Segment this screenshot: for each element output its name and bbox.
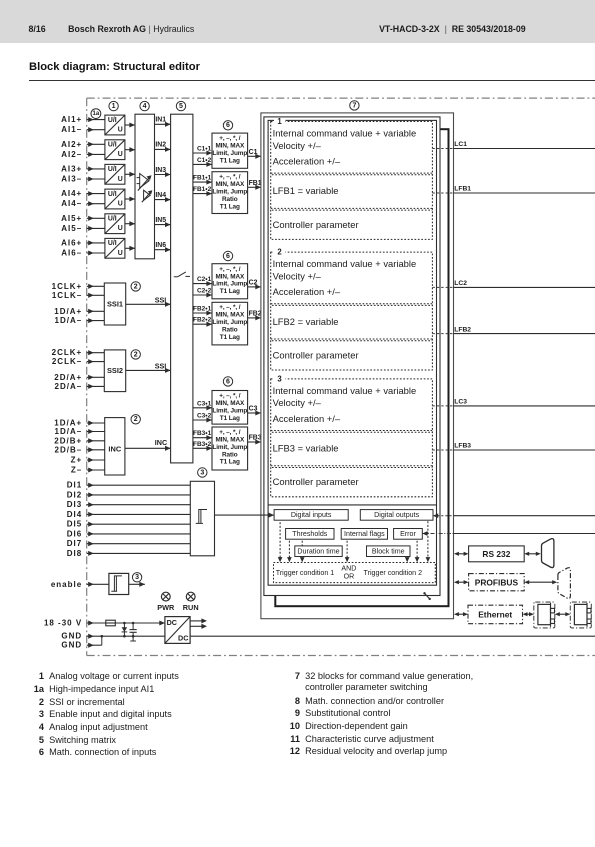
svg-text:+, –, *, /: +, –, *, /: [219, 304, 241, 311]
divider line above digital section: [268, 504, 436, 506]
serial D-sub connector: [542, 539, 554, 568]
svg-text:U/I: U/I: [108, 191, 117, 198]
frame dash-dot bottom border: [87, 655, 595, 657]
frame dash-dot left border: [86, 98, 88, 655]
INC incremental interface block: [105, 418, 125, 475]
svg-text:OR: OR: [344, 573, 355, 581]
wire IN1 matrix to block 5: [155, 117, 171, 127]
block 1 section divider 2 (dotted): [271, 208, 433, 210]
svg-text:MIN, MAX: MIN, MAX: [215, 143, 245, 150]
circled number 4: [140, 101, 149, 110]
block 1 text lines: [273, 127, 417, 229]
SSI2 interface block: [104, 350, 125, 392]
svg-text:C1•2: C1•2: [197, 157, 212, 164]
svg-text:LC3: LC3: [454, 399, 467, 406]
SSI1 interface block: [104, 283, 125, 325]
svg-text:6: 6: [226, 253, 230, 260]
block 2 section divider 2 (dotted): [271, 339, 433, 341]
wire U/I block 1 to switching matrix: [125, 122, 135, 127]
svg-text:U/I: U/I: [108, 240, 117, 247]
Ethernet RJ45 connector 1: [534, 602, 555, 628]
svg-text:C2•1: C2•1: [197, 276, 212, 283]
svg-text:LFB1: LFB1: [454, 186, 471, 193]
double arrow block7 to Ethernet: [454, 612, 468, 616]
svg-text:U: U: [118, 151, 123, 158]
svg-text:6: 6: [226, 378, 230, 385]
double arrow RJ45 1 to RJ45 2: [555, 612, 571, 616]
circled number 1: [109, 101, 118, 110]
svg-text:DI3: DI3: [67, 500, 82, 509]
page title: [29, 61, 200, 73]
block 7 front page rectangle: [264, 117, 440, 596]
svg-text:+, –, *, /: +, –, *, /: [219, 393, 241, 400]
svg-text:INC: INC: [108, 444, 121, 453]
svg-text:3: 3: [135, 574, 139, 581]
circled number 3 (enable): [132, 573, 141, 582]
U/I converter block 1 (analog input 1): [105, 115, 125, 135]
svg-text:Velocity +/–: Velocity +/–: [273, 140, 322, 151]
U/I converter block 4 (analog input 4): [105, 189, 125, 209]
wire U/I block 6 to switching matrix: [125, 246, 135, 251]
svg-text:LC2: LC2: [454, 280, 467, 287]
input line DI7: [67, 539, 191, 548]
svg-text:C2•2: C2•2: [197, 288, 212, 295]
block 7 back page rectangle: [261, 113, 454, 619]
input line 2D/B– (INC): [55, 445, 105, 454]
math box FB3 (with Ratio): [212, 427, 248, 470]
svg-text:AI2+: AI2+: [61, 140, 82, 149]
svg-text:DI4: DI4: [67, 510, 82, 519]
dashed connector Error to trigger: [415, 541, 420, 563]
svg-text:IN2: IN2: [155, 142, 166, 149]
math box C3 (MIN MAX Limit Jump T1 Lag): [212, 391, 248, 425]
svg-text:Velocity +/–: Velocity +/–: [273, 270, 322, 281]
block 3 section divider (dotted): [271, 431, 433, 433]
input line 2CLK– (SSI2): [52, 357, 104, 366]
svg-text:1: 1: [112, 103, 116, 110]
svg-text:FB3•1: FB3•1: [193, 430, 212, 437]
input line DI5: [67, 520, 191, 529]
svg-text:T1 Lag: T1 Lag: [220, 334, 240, 341]
math box C2 (MIN MAX Limit Jump T1 Lag): [212, 264, 248, 299]
wire IN5 matrix to block 5: [155, 217, 171, 227]
wire FB2 math box to block 7: [248, 310, 262, 320]
svg-text:Ratio: Ratio: [222, 196, 238, 203]
svg-text:1a: 1a: [93, 111, 100, 117]
input lines AI1+ / AI1- with labels: [61, 115, 105, 134]
switching matrix block (4): [135, 114, 155, 259]
svg-text:2D/B–: 2D/B–: [55, 445, 83, 454]
block 2 section divider (dotted): [271, 304, 433, 306]
U/I converter block 3 (analog input 3): [105, 164, 125, 184]
input line DI2: [67, 490, 191, 499]
svg-text:FB1: FB1: [249, 180, 262, 187]
input lines AI6+ / AI6- with labels: [61, 238, 105, 257]
svg-text:MIN, MAX: MIN, MAX: [215, 400, 245, 407]
ground line GND: [61, 632, 595, 641]
svg-text:DC: DC: [178, 633, 188, 642]
dashed stub and output line LFB2: [432, 326, 595, 333]
circled number 1a: [91, 109, 101, 119]
svg-text:DI8: DI8: [67, 549, 82, 558]
svg-text:SSI2: SSI2: [107, 366, 123, 375]
svg-text:+, –, *, /: +, –, *, /: [219, 174, 241, 181]
svg-text:C3•1: C3•1: [197, 400, 212, 407]
suppressor diode V1: [122, 622, 128, 638]
Trigger condition dotted box: [274, 563, 436, 583]
input line DI6: [67, 529, 191, 538]
page header bar: [0, 0, 595, 43]
block 7 thick middle page rectangle: [275, 129, 448, 606]
svg-text:LC1: LC1: [454, 141, 467, 148]
input line Z+ (INC): [71, 456, 105, 465]
double arrow block7 to PROFIBUS: [454, 580, 469, 584]
svg-text:IN6: IN6: [155, 242, 166, 249]
wire U/I block 3 to switching matrix: [125, 172, 135, 177]
svg-text:Limit, Jump: Limit, Jump: [212, 408, 247, 415]
input lines AI3+ / AI3- with labels: [61, 164, 105, 183]
Block time box: [367, 546, 411, 557]
svg-text:2D/A+: 2D/A+: [54, 373, 82, 382]
wires FB2•1 and FB2•2 block5 to math box FB2: [193, 306, 212, 327]
input line 1CLK+ (SSI1): [52, 282, 105, 291]
svg-text:LFB2: LFB2: [454, 326, 471, 333]
input line 1D/A– (INC): [55, 427, 105, 436]
DC/DC converter: [165, 617, 190, 644]
wire U/I block 4 to switching matrix: [125, 196, 135, 201]
U/I converter block 5 (analog input 5): [105, 214, 125, 234]
svg-text:U: U: [118, 250, 123, 257]
svg-text:2: 2: [134, 351, 138, 358]
svg-text:Error: Error: [400, 530, 416, 538]
input selector block (5): [171, 114, 193, 463]
svg-text:2D/B+: 2D/B+: [54, 436, 82, 445]
svg-text:PROFIBUS: PROFIBUS: [475, 578, 519, 588]
double arrow block7 to RS232: [454, 552, 469, 556]
circled number 2 (INC): [131, 415, 140, 424]
svg-text:MIN, MAX: MIN, MAX: [215, 181, 245, 188]
svg-text:AI6+: AI6+: [61, 238, 82, 247]
Thresholds box: [286, 529, 334, 540]
input line 2D/B+ (INC): [54, 436, 104, 445]
wires C3•1 and C3•2 block5 to math box C3: [193, 400, 212, 422]
svg-text:LFB3: LFB3: [454, 443, 471, 450]
svg-text:Limit, Jump: Limit, Jump: [212, 281, 247, 288]
svg-text:IN5: IN5: [155, 217, 166, 224]
svg-text:Block time: Block time: [372, 548, 405, 556]
svg-text:U/I: U/I: [108, 117, 117, 124]
dashed stub and output line LFB3: [432, 443, 595, 450]
svg-text:Ratio: Ratio: [222, 451, 238, 458]
svg-text:2: 2: [134, 416, 138, 423]
svg-text:AI1–: AI1–: [61, 125, 82, 134]
svg-text:Acceleration +/–: Acceleration +/–: [273, 413, 341, 424]
svg-text:FB2•2: FB2•2: [193, 317, 212, 324]
dashed connector Thresholds to Duration time: [301, 541, 303, 546]
svg-text:SSI1: SSI1: [107, 300, 123, 309]
svg-text:Limit, Jump: Limit, Jump: [212, 319, 247, 326]
Ethernet interface box (dash-dot): [468, 605, 523, 624]
double arrow Ethernet to RJ45 1: [523, 612, 535, 616]
block 3 section divider 2 (dotted): [271, 466, 433, 468]
svg-text:Ratio: Ratio: [222, 327, 238, 334]
svg-text:AI5+: AI5+: [61, 214, 82, 223]
svg-text:4: 4: [143, 103, 147, 110]
wire C3 math box to block 7: [248, 406, 261, 416]
wire FB1 math box to block 7: [248, 180, 262, 190]
input line 2CLK+ (SSI2): [52, 348, 105, 357]
dashed stub and output line LFB1: [432, 186, 595, 193]
svg-text:DI1: DI1: [67, 481, 82, 490]
svg-text:Digital inputs: Digital inputs: [291, 511, 332, 519]
svg-text:LFB3 = variable: LFB3 = variable: [273, 443, 339, 454]
circled number 6 (math connection group 1): [223, 121, 232, 130]
circled number 2 (SSI1): [131, 282, 140, 291]
svg-text:Limit, Jump: Limit, Jump: [212, 150, 247, 157]
svg-text:U: U: [118, 176, 123, 183]
svg-text:enable: enable: [51, 580, 82, 589]
Error box: [394, 529, 423, 540]
supply input 18-30V line: [44, 619, 165, 628]
svg-text:DI5: DI5: [67, 520, 82, 529]
wires C2•1 and C2•2 block5 to math box C2: [193, 276, 212, 297]
Ethernet RJ45 connector 2: [570, 602, 591, 628]
svg-text:AI4–: AI4–: [61, 199, 82, 208]
block 2 text lines: [273, 258, 417, 360]
svg-text:U: U: [118, 201, 123, 208]
svg-text:AI6–: AI6–: [61, 249, 82, 258]
svg-text:MIN, MAX: MIN, MAX: [215, 273, 245, 280]
wires C1•1 and C1•2 block5 to math box C1: [193, 146, 212, 167]
svg-text:18 -30 V: 18 -30 V: [44, 619, 82, 628]
svg-text:IN1: IN1: [155, 117, 166, 124]
enable output arrow: [129, 582, 145, 587]
svg-text:T1 Lag: T1 Lag: [220, 203, 240, 210]
page-stack continuation slash mark: [423, 592, 431, 600]
input lines AI5+ / AI5- with labels: [61, 214, 105, 233]
svg-text:PWR: PWR: [157, 603, 175, 612]
svg-text:FB2: FB2: [249, 310, 262, 317]
wire IN2 matrix to block 5: [155, 142, 171, 152]
svg-text:Controller parameter: Controller parameter: [273, 349, 359, 360]
svg-text:AI5–: AI5–: [61, 224, 82, 233]
circled number 6 (math connection group 2): [223, 251, 232, 260]
svg-text:1D/A–: 1D/A–: [55, 316, 83, 325]
title rule: [29, 80, 595, 81]
svg-text:T1 Lag: T1 Lag: [220, 288, 240, 295]
dashed stub and output line LC1: [432, 141, 595, 148]
svg-text:LFB2 = variable: LFB2 = variable: [273, 316, 339, 327]
input line DI4: [67, 510, 191, 519]
svg-text:U: U: [118, 127, 123, 134]
svg-text:U/I: U/I: [108, 166, 117, 173]
svg-text:Controller parameter: Controller parameter: [273, 476, 359, 487]
svg-text:MIN, MAX: MIN, MAX: [215, 312, 245, 319]
svg-text:5: 5: [179, 103, 183, 110]
svg-text:Acceleration +/–: Acceleration +/–: [273, 286, 341, 297]
svg-text:+, –, *, /: +, –, *, /: [219, 266, 241, 273]
Internal flags box: [341, 529, 387, 540]
dash-dot line error to right output line: [422, 531, 595, 536]
svg-text:Duration time: Duration time: [297, 548, 339, 556]
svg-text:1CLK–: 1CLK–: [52, 291, 82, 300]
input lines AI2+ / AI2- with labels: [61, 140, 105, 159]
wire C1 math box to block 7: [248, 149, 261, 159]
Duration time box: [295, 546, 342, 557]
wire INC output to block 5: [125, 438, 171, 451]
svg-text:FB1•1: FB1•1: [193, 175, 212, 182]
svg-text:U: U: [118, 225, 123, 232]
circled number 7: [350, 101, 359, 110]
command value block 3 dotted outline: [271, 374, 433, 496]
svg-text:FB1•2: FB1•2: [193, 186, 212, 193]
svg-text:Internal command value + varia: Internal command value + variable: [273, 127, 417, 138]
dashed stub and output line LC3: [432, 399, 595, 406]
block 7 inner content rectangle: [268, 120, 436, 585]
svg-text:U/I: U/I: [108, 142, 117, 149]
wire SSI1 output to block 5: [126, 296, 171, 307]
svg-text:Controller parameter: Controller parameter: [273, 219, 359, 230]
svg-text:Internal flags: Internal flags: [344, 530, 385, 538]
svg-text:Limit, Jump: Limit, Jump: [212, 189, 247, 196]
input line DI8: [67, 549, 191, 558]
svg-text:FB3•2: FB3•2: [193, 441, 212, 448]
fuse F1: [106, 620, 116, 626]
svg-text:DI7: DI7: [67, 539, 82, 548]
svg-text:+, –, *, /: +, –, *, /: [219, 135, 241, 142]
input line Z– (INC): [71, 466, 105, 475]
input line 1D/A+ (SSI1): [54, 307, 104, 316]
svg-text:FB2•1: FB2•1: [193, 306, 212, 313]
wire IN6 matrix to block 5: [155, 242, 171, 252]
svg-text:U/I: U/I: [108, 216, 117, 223]
dashed connector Duration time to trigger: [300, 557, 305, 562]
circled number 6 (math connection group 3): [223, 377, 232, 386]
circled number 5: [176, 101, 185, 110]
svg-text:1D/A+: 1D/A+: [54, 307, 82, 316]
dashed line digital outputs to right output line: [433, 513, 595, 518]
svg-text:Internal command value + varia: Internal command value + variable: [273, 385, 417, 396]
svg-text:IN4: IN4: [155, 192, 166, 199]
enable threshold box (3): [109, 573, 129, 594]
svg-text:T1 Lag: T1 Lag: [220, 158, 240, 165]
svg-text:GND: GND: [61, 632, 82, 641]
Digital outputs box: [360, 510, 433, 521]
svg-text:Z–: Z–: [71, 466, 82, 475]
wires FB1•1 and FB1•2 block5 to math box FB1: [193, 175, 212, 197]
svg-text:6: 6: [226, 122, 230, 129]
svg-text:GND: GND: [61, 641, 82, 650]
svg-text:3: 3: [200, 469, 204, 476]
math box FB1 (with Ratio): [212, 172, 248, 214]
svg-text:IN3: IN3: [155, 167, 166, 174]
command value block 2 dotted outline: [271, 248, 433, 370]
double arrow RS232 to serial connector: [524, 552, 541, 556]
dashed connector Digital outputs to trigger: [426, 521, 431, 562]
legend left column: [0, 0, 1, 1]
svg-text:DI2: DI2: [67, 490, 82, 499]
svg-text:Velocity +/–: Velocity +/–: [273, 397, 322, 408]
PROFIBUS D-sub connector (dash-dot): [558, 568, 571, 599]
command value block 1 dotted outline: [271, 117, 433, 239]
dashed connector Digital inputs to trigger: [278, 522, 283, 562]
svg-text:1: 1: [277, 117, 282, 126]
svg-text:3: 3: [277, 374, 282, 383]
circled number 2 (SSI2): [131, 350, 140, 359]
svg-text:T1 Lag: T1 Lag: [220, 459, 240, 466]
svg-text:Digital outputs: Digital outputs: [374, 511, 419, 519]
svg-text:DI6: DI6: [67, 529, 82, 538]
svg-text:FB3: FB3: [249, 435, 262, 442]
svg-text:INC: INC: [155, 438, 167, 447]
input line 1D/A– (SSI1): [55, 316, 105, 325]
svg-text:RS 232: RS 232: [482, 549, 510, 559]
input line 1CLK– (SSI1): [52, 291, 104, 300]
svg-text:Acceleration +/–: Acceleration +/–: [273, 156, 341, 167]
svg-text:AI4+: AI4+: [61, 189, 82, 198]
wire U/I block 5 to switching matrix: [125, 221, 135, 226]
wires FB3•1 and FB3•2 block5 to math box FB3: [193, 430, 212, 451]
svg-text:DC: DC: [167, 618, 177, 627]
svg-text:Limit, Jump: Limit, Jump: [212, 444, 247, 451]
svg-text:RUN: RUN: [183, 603, 199, 612]
double arrow PROFIBUS to connector: [524, 580, 557, 584]
svg-text:C3•2: C3•2: [197, 413, 212, 420]
svg-text:Trigger condition 2: Trigger condition 2: [364, 569, 423, 577]
dashed stub and output line LC2: [432, 280, 595, 287]
wire U/I block 2 to switching matrix: [125, 147, 135, 152]
wire C2 math box to block 7: [248, 279, 261, 289]
wire IN4 matrix to block 5: [155, 192, 171, 202]
svg-text:2: 2: [277, 248, 282, 257]
enable input line and label: [51, 580, 109, 589]
input line 2D/A– (SSI2): [55, 382, 105, 391]
block 3 text lines: [273, 385, 417, 487]
svg-text:Z+: Z+: [71, 456, 83, 465]
svg-text:LFB1 = variable: LFB1 = variable: [273, 185, 339, 196]
svg-text:+, –, *, /: +, –, *, /: [219, 429, 241, 436]
svg-text:Internal command value + varia: Internal command value + variable: [273, 258, 417, 269]
svg-text:2: 2: [134, 283, 138, 290]
math box C1 (MIN MAX Limit Jump T1 Lag): [212, 133, 248, 168]
svg-text:7: 7: [352, 102, 356, 109]
input line 2D/A+ (SSI2): [54, 373, 104, 382]
input line 1D/A+ (INC): [54, 419, 104, 428]
math box FB2 (with Ratio): [212, 302, 248, 345]
dashed connector Thresholds to trigger: [287, 541, 292, 563]
svg-text:MIN, MAX: MIN, MAX: [215, 436, 245, 443]
input lines AI4+ / AI4- with labels: [61, 189, 105, 208]
svg-text:AI2–: AI2–: [61, 150, 82, 159]
wire SSI2 output to block 5: [126, 362, 171, 373]
svg-text:AI3–: AI3–: [61, 175, 82, 184]
wire FB3 math box to block 7: [248, 435, 262, 445]
input line DI1: [67, 481, 191, 490]
wire IN3 matrix to block 5: [155, 167, 171, 177]
second GND pin: [61, 635, 103, 650]
svg-text:1CLK+: 1CLK+: [52, 282, 83, 291]
circled number 3 (digital input block): [198, 468, 207, 477]
svg-text:T1 Lag: T1 Lag: [220, 415, 240, 422]
U/I converter block 2 (analog input 2): [105, 140, 125, 160]
svg-text:Trigger condition 1: Trigger condition 1: [276, 569, 335, 577]
svg-text:AI3+: AI3+: [61, 164, 82, 173]
frame dash-dot top border: [87, 97, 595, 99]
svg-text:Ethernet: Ethernet: [478, 610, 512, 620]
block 1 section divider (dotted): [271, 173, 433, 175]
svg-text:Thresholds: Thresholds: [292, 530, 328, 538]
svg-text:AND: AND: [341, 564, 356, 572]
